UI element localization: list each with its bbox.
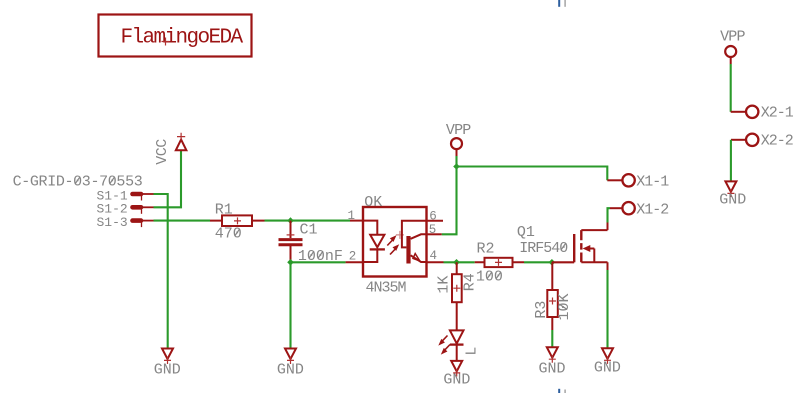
ground GND (C1) [277, 349, 304, 379]
svg-text:R4: R4 [461, 273, 478, 291]
pin X1-1 [607, 174, 669, 191]
svg-text:5: 5 [429, 223, 437, 237]
pin S1-2 [97, 202, 154, 217]
wire R3 to GND [551, 330, 553, 347]
svg-text:1K: 1K [436, 276, 453, 294]
svg-text:X2-1: X2-1 [761, 105, 794, 122]
wire R1 to node C1 [265, 220, 291, 222]
pin S1-1 [97, 188, 154, 203]
wire OK pin4 to node [444, 261, 457, 263]
capacitor C1 [279, 221, 343, 265]
wire R2 to node [524, 261, 552, 263]
svg-text:VPP: VPP [446, 122, 471, 139]
cursor mark bottom [558, 389, 560, 393]
resistor R1 [210, 201, 265, 242]
svg-text:R1: R1 [215, 201, 233, 218]
ground GND (S1) [154, 349, 181, 379]
wire node to OK pin1 [291, 220, 351, 222]
junction C1 top [287, 217, 294, 224]
svg-text:GND: GND [443, 372, 470, 389]
OK phototransistor [402, 221, 427, 264]
op-to-coupler OK body [363, 194, 427, 296]
wire S1-1 to GND [154, 194, 168, 349]
OK pin 2 [346, 250, 363, 264]
svg-text:GND: GND [154, 361, 181, 378]
wire X1-2 to Q1 drain [608, 208, 611, 222]
ground GND (R3) [539, 347, 566, 377]
supply VPP (X2) [720, 28, 745, 64]
svg-text:X1-1: X1-1 [636, 174, 669, 191]
supply VPP [446, 122, 471, 156]
svg-text:FlamingoEDA: FlamingoEDA [121, 27, 244, 50]
junction C1 bottom [287, 259, 294, 266]
resistor R3 [533, 262, 573, 330]
wire VPP to node [455, 156, 457, 167]
svg-text:GND: GND [719, 191, 746, 208]
svg-text:VCC: VCC [154, 139, 171, 165]
svg-text:Q1: Q1 [517, 224, 535, 241]
svg-text:OK: OK [364, 194, 382, 211]
OK pin 1 [348, 209, 364, 223]
OK internal LED [363, 221, 385, 262]
wire S1-3 to R1 [154, 220, 211, 222]
wire S1-2 to VCC [154, 151, 182, 207]
wire node to X1-1 [457, 167, 608, 181]
pin X1-2 [610, 202, 668, 219]
ground GND (LED) [443, 361, 470, 389]
LED L [450, 330, 481, 361]
wire node to R2 [457, 261, 475, 263]
svg-text:S1-3: S1-3 [97, 215, 128, 230]
svg-text:100: 100 [476, 269, 503, 286]
svg-text:GND: GND [539, 360, 566, 377]
svg-text:X1-2: X1-2 [636, 202, 668, 219]
wire VPP to X2-1 [730, 64, 732, 112]
OK pin 6 [427, 209, 444, 223]
svg-text:R3: R3 [533, 301, 550, 319]
svg-text:R2: R2 [477, 241, 495, 258]
cursor mark top [558, 0, 560, 7]
wire node down to OK pin5 [442, 167, 457, 235]
svg-text:L: L [463, 347, 480, 356]
ground GND (X2) [719, 181, 746, 208]
svg-text:6: 6 [429, 209, 437, 223]
junction VPP node [453, 163, 460, 170]
wire C1 to GND [289, 262, 291, 348]
transistor Q1 MOSFET [552, 223, 608, 271]
junction R3 node [549, 259, 556, 266]
svg-text:4: 4 [430, 249, 438, 263]
junction R4 node [453, 259, 460, 266]
svg-text:C1: C1 [300, 221, 318, 238]
resistor R4 [436, 262, 479, 330]
wire X2-2 to GND [730, 140, 732, 182]
pin X2-1 [731, 105, 794, 122]
LED arrows [438, 336, 450, 355]
svg-text:2: 2 [349, 250, 357, 264]
OK pin 4 [427, 249, 444, 263]
svg-text:VPP: VPP [720, 28, 745, 45]
svg-text:X2-2: X2-2 [761, 133, 793, 150]
svg-text:IRF540: IRF540 [519, 240, 568, 257]
ground GND (Q1) [594, 348, 621, 376]
wire Q1 source to GND [606, 270, 608, 348]
svg-text:10K: 10K [556, 293, 573, 320]
wire C1 to OK pin2 [291, 261, 346, 263]
svg-text:GND: GND [594, 360, 621, 377]
pin X2-2 [731, 133, 793, 150]
OK light arrows [387, 235, 399, 254]
slashed zero overlays [75, 177, 567, 310]
svg-text:4N35M: 4N35M [366, 279, 407, 296]
resistor R2 [475, 241, 524, 286]
OK origin cross [396, 231, 404, 239]
svg-text:1: 1 [348, 209, 356, 223]
title frame FlamingoEDA [99, 15, 252, 57]
svg-text:470: 470 [215, 226, 242, 243]
pin S1-3 [97, 215, 154, 230]
supply VCC [154, 133, 186, 165]
OK pin 5 [427, 223, 442, 237]
svg-text:GND: GND [277, 361, 304, 378]
